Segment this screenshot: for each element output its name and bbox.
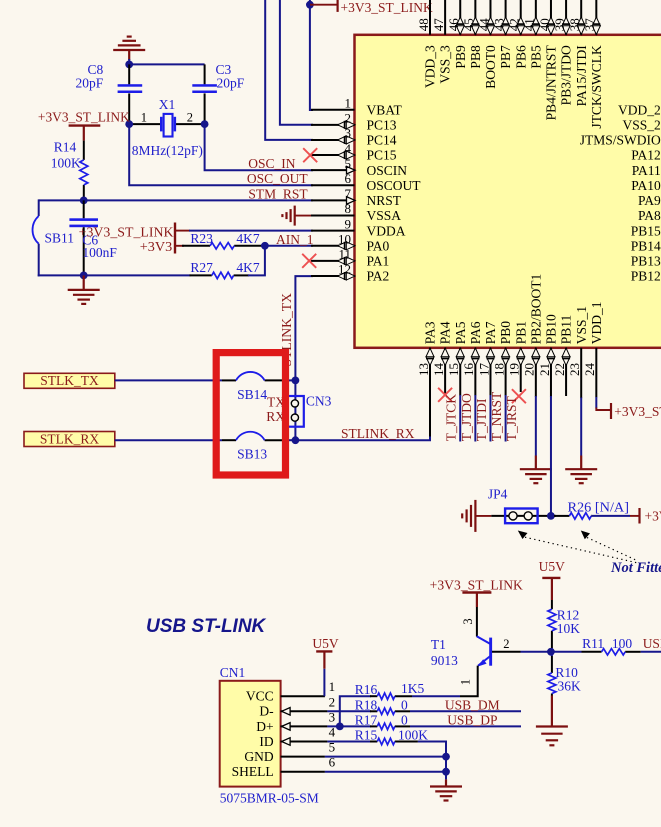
power flag +3V3_ST_LINK at R26 (630, 515, 640, 517)
svg-text:+3V3_ST_LINK: +3V3_ST_LINK (79, 224, 174, 239)
svg-text:24: 24 (582, 363, 597, 377)
svg-text:PB6: PB6 (513, 45, 528, 69)
svg-text:OSC_IN: OSC_IN (248, 156, 296, 171)
wire pin23 to ground (580, 398, 582, 456)
svg-text:39: 39 (552, 18, 567, 31)
svg-text:+3V3_ST_LINK: +3V3_ST_LINK (341, 0, 433, 15)
svg-text:X1: X1 (159, 97, 176, 112)
svg-text:PB1: PB1 (513, 321, 528, 344)
svg-text:PB0: PB0 (498, 321, 513, 345)
crystal X1 (129, 123, 161, 125)
svg-text:R16: R16 (355, 682, 378, 697)
CN1 pin 2 stub D- (281, 710, 328, 712)
svg-text:5: 5 (345, 156, 352, 171)
svg-text:3: 3 (345, 126, 352, 141)
svg-text:42: 42 (507, 18, 522, 31)
svg-text:PA7: PA7 (483, 321, 498, 344)
IC pin 47 VSS_3 (444, 0, 446, 35)
IC pin 2 PC13 (311, 124, 355, 126)
no-connect cross pin 4 (303, 148, 317, 162)
svg-text:100K: 100K (398, 728, 428, 743)
wire pin24 VDD_1 (595, 397, 597, 409)
svg-text:VDD_2: VDD_2 (618, 102, 661, 117)
IC pin 3 PC14 (311, 139, 355, 141)
node R14/STM_RST junction (80, 197, 88, 205)
wire OSC_OUT (129, 124, 313, 185)
svg-text:CN3: CN3 (306, 394, 332, 409)
no-connect cross pin 14 (438, 388, 452, 402)
svg-text:20pF: 20pF (217, 76, 245, 91)
svg-text:VCC: VCC (246, 689, 274, 704)
resistor R23 (182, 245, 210, 247)
svg-text:SB14: SB14 (237, 387, 267, 402)
svg-text:8: 8 (345, 201, 352, 216)
svg-text:T1: T1 (431, 637, 446, 652)
red highlight box (216, 353, 285, 475)
svg-text:JTCK/SWCLK: JTCK/SWCLK (589, 45, 604, 129)
IC pin 19 PB1 (520, 348, 522, 392)
IC STM32 body (355, 35, 661, 348)
svg-text:6: 6 (345, 171, 352, 186)
node STLINK_TX/CN3 (292, 377, 300, 385)
transistor T1 (477, 636, 491, 644)
svg-text:4K7: 4K7 (236, 260, 259, 275)
svg-text:3: 3 (461, 618, 475, 624)
svg-text:37: 37 (582, 18, 597, 32)
wire R16 to T1 emitter (412, 695, 460, 697)
IC pin 46 PB9 (459, 0, 461, 35)
svg-text:5075BMR-05-SM: 5075BMR-05-SM (220, 791, 319, 806)
capacitor C6 (83, 200, 85, 218)
wire STM_RST rail (39, 199, 313, 201)
ground below CN1 rail (445, 779, 447, 786)
wire OSC_IN (205, 124, 313, 170)
resistor R12 (551, 600, 553, 609)
svg-text:19: 19 (507, 363, 522, 376)
IC pin 23 VSS_1 (580, 348, 582, 398)
svg-text:SB13: SB13 (237, 446, 267, 461)
svg-text:R15: R15 (355, 728, 378, 743)
svg-text:PB14: PB14 (631, 238, 661, 253)
svg-text:STLINK_RX: STLINK_RX (341, 426, 415, 441)
svg-text:PB12: PB12 (631, 269, 661, 284)
node SHELL junction (442, 768, 450, 776)
svg-text:14: 14 (431, 363, 446, 377)
svg-text:PA9: PA9 (638, 193, 661, 208)
node PA0 junction (261, 242, 269, 250)
svg-text:2: 2 (187, 110, 193, 124)
wire stub T_JTCK (459, 395, 461, 442)
svg-text:PB9: PB9 (453, 45, 468, 69)
svg-text:41: 41 (522, 18, 537, 31)
power flag +3V3_ST_LINK top (310, 4, 338, 6)
transistor T1 base wire (492, 651, 521, 653)
resistor R18 (370, 710, 377, 712)
svg-text:R23: R23 (190, 231, 213, 246)
node JP4/R26 junction (547, 512, 555, 520)
svg-text:PB13: PB13 (631, 254, 661, 269)
svg-text:9013: 9013 (431, 653, 458, 668)
svg-text:USB ST-LINK: USB ST-LINK (146, 616, 267, 637)
IC pin 6 OSCOUT (311, 184, 355, 186)
svg-text:48: 48 (416, 18, 431, 31)
svg-text:100K: 100K (51, 156, 81, 171)
svg-text:AIN_1: AIN_1 (276, 232, 314, 247)
svg-text:STLK_RX: STLK_RX (40, 431, 100, 446)
wire SB11 left leg upper (38, 199, 40, 216)
svg-text:VDDA: VDDA (367, 223, 406, 238)
svg-text:16: 16 (461, 363, 476, 377)
IC pin 8 VSSA (311, 215, 355, 217)
svg-text:R26 [N/A]: R26 [N/A] (568, 500, 630, 515)
solder bridge SB14 (222, 379, 236, 381)
IC pin 7 NRST (311, 199, 355, 201)
svg-text:40: 40 (537, 18, 552, 31)
svg-text:PA3: PA3 (423, 321, 438, 344)
node D+ junction (336, 723, 344, 731)
svg-text:0: 0 (401, 697, 408, 712)
IC pin 48 VDD_3 (429, 0, 431, 35)
svg-text:D+: D+ (256, 719, 273, 734)
capacitor C3 (204, 64, 206, 84)
jumper JP4 (505, 509, 537, 524)
IC pin 14 PA4 (444, 348, 446, 396)
node C8/C3 top junction (125, 61, 133, 69)
svg-text:2: 2 (345, 111, 352, 126)
svg-text:PA0: PA0 (367, 238, 390, 253)
node T1 base junction (547, 648, 555, 656)
svg-text:OSCOUT: OSCOUT (367, 178, 422, 193)
svg-text:PB10: PB10 (544, 314, 559, 344)
wire SHELL to rail (325, 771, 446, 773)
svg-text:100nF: 100nF (82, 245, 117, 260)
svg-text:PB8: PB8 (468, 45, 483, 69)
wire R11 to USB (641, 651, 661, 653)
svg-text:VSSA: VSSA (367, 208, 402, 223)
transistor T1 collector (476, 607, 478, 637)
IC pin 5 OSCIN (311, 169, 355, 171)
svg-text:23: 23 (567, 363, 582, 376)
wire STLK_TX to SB14 (115, 379, 222, 381)
svg-text:SB11: SB11 (45, 231, 75, 246)
wire ID to R15 (327, 741, 371, 743)
IC pin 21 PB10 (550, 348, 552, 397)
resistor R17 (370, 725, 377, 727)
svg-text:PB11: PB11 (559, 315, 574, 345)
svg-text:2: 2 (503, 637, 509, 651)
resistor R27 (190, 274, 212, 276)
ground at JP4 (474, 500, 476, 532)
IC pin 41 PB5 (535, 0, 537, 35)
svg-text:PA8: PA8 (638, 208, 661, 223)
svg-text:R14: R14 (54, 140, 77, 155)
node GND junction (442, 753, 450, 761)
IC pin 20 PB2/BOOT1 (535, 348, 537, 397)
svg-text:PB5: PB5 (528, 45, 543, 69)
svg-text:4: 4 (345, 141, 352, 156)
svg-text:VSS_1: VSS_1 (574, 306, 589, 344)
connector CN3 (288, 396, 304, 427)
IC pin 13 PA3 (429, 348, 431, 438)
svg-text:+3V3_ST_LINK: +3V3_ST_LINK (38, 109, 130, 124)
svg-text:8MHz(12pF): 8MHz(12pF) (132, 143, 203, 158)
svg-text:U5V: U5V (539, 559, 565, 574)
svg-text:PC13: PC13 (367, 117, 397, 132)
wire stub T_JTDO (474, 395, 476, 442)
IC pin 4 PC15 (311, 154, 355, 156)
svg-text:T_JTCK: T_JTCK (444, 394, 459, 442)
svg-text:9: 9 (345, 216, 352, 231)
IC pin 22 PB11 (565, 348, 567, 396)
svg-text:1: 1 (345, 95, 352, 110)
svg-text:Not Fitted: Not Fitted (610, 560, 661, 576)
CN1 pin 6 stub SHELL (281, 771, 325, 773)
svg-text:43: 43 (491, 18, 506, 31)
svg-text:47: 47 (431, 18, 446, 32)
svg-text:U5V: U5V (312, 636, 338, 651)
svg-text:T_JTDO: T_JTDO (459, 393, 474, 441)
svg-text:VDD_1: VDD_1 (589, 302, 604, 345)
svg-text:STLK_TX: STLK_TX (40, 373, 99, 388)
no-connect cross pin 19 (512, 389, 526, 403)
CN1 pin 5 stub GND (281, 756, 325, 758)
wire SB11 left leg lower (38, 244, 40, 277)
svg-text:T_JTDI: T_JTDI (474, 398, 489, 441)
svg-text:PB15: PB15 (631, 223, 661, 238)
IC pin 45 PB8 (474, 0, 476, 35)
svg-text:+3V3_ST_LINK: +3V3_ST_LINK (645, 508, 661, 523)
wire STLK_RX to SB13 (115, 439, 222, 441)
CN1 pin 3 stub D+ (281, 725, 328, 727)
svg-text:VDD_3: VDD_3 (423, 45, 438, 88)
svg-text:PC15: PC15 (367, 148, 397, 163)
svg-text:R18: R18 (355, 697, 378, 712)
ground (inverted) above C8 (113, 49, 145, 51)
wire R27 to PA0 node (248, 246, 265, 276)
svg-text:T_JRST: T_JRST (504, 396, 519, 442)
solder bridge SB13 (222, 439, 236, 441)
svg-text:PA10: PA10 (631, 178, 661, 193)
wire ground rail (38, 274, 191, 276)
svg-text:4K7: 4K7 (236, 231, 259, 246)
ground below R10 (551, 696, 553, 727)
power flag +3V3_ST_LINK at VDD_1 (596, 408, 610, 411)
wire PC14 net (265, 0, 313, 140)
wire +3V3_ST_LINK vertical to pin 1 (310, 0, 313, 110)
svg-text:PA6: PA6 (468, 321, 483, 344)
svg-text:20: 20 (522, 363, 537, 376)
svg-text:1K5: 1K5 (401, 681, 424, 696)
svg-text:T_NRST: T_NRST (489, 391, 504, 441)
svg-text:10K: 10K (557, 621, 581, 636)
svg-text:USB_DP: USB_DP (447, 712, 497, 727)
svg-text:20pF: 20pF (76, 76, 104, 91)
IC pin 17 PA7 (489, 348, 491, 396)
svg-text:45: 45 (461, 18, 476, 31)
svg-text:PB2/BOOT1: PB2/BOOT1 (528, 274, 543, 345)
node X1 pin1 junction (125, 120, 133, 128)
wire pin21 to JP4 node (550, 396, 552, 516)
no-connect cross pin 11 (302, 254, 316, 268)
solder bridge SB11 (33, 216, 39, 244)
svg-text:1: 1 (458, 679, 472, 685)
svg-text:22: 22 (552, 363, 567, 376)
wire SB14 to node (284, 379, 295, 381)
connector CN1 body (220, 681, 281, 787)
svg-text:PA4: PA4 (438, 321, 453, 344)
wire pin20 to ground (535, 396, 537, 456)
wire STLINK_TX (295, 276, 313, 440)
svg-text:BOOT0: BOOT0 (483, 45, 498, 89)
svg-text:0: 0 (401, 712, 408, 727)
svg-text:1: 1 (141, 110, 147, 124)
IC pin 43 PB7 (505, 0, 507, 35)
resistor R11 (582, 651, 602, 653)
svg-text:OSC_OUT: OSC_OUT (247, 171, 309, 186)
svg-text:OSCIN: OSCIN (367, 163, 408, 178)
svg-text:JP4: JP4 (488, 486, 508, 501)
resistor R10 (551, 656, 553, 673)
svg-text:38: 38 (567, 18, 582, 31)
ground at pin 23 (580, 456, 582, 470)
svg-text:+3V3_ST_LINK: +3V3_ST_LINK (430, 577, 523, 592)
wire STLINK_RX (295, 437, 430, 441)
svg-text:JTMS/SWDIO: JTMS/SWDIO (580, 133, 661, 148)
wire SB13 to node (284, 439, 295, 441)
wire USB_DP (410, 725, 521, 727)
svg-text:1: 1 (329, 679, 336, 694)
port STLK_RX (24, 432, 115, 447)
svg-text:VSS_2: VSS_2 (623, 117, 661, 132)
IC pin 11 PA1 (311, 260, 355, 262)
svg-text:PB7: PB7 (498, 45, 513, 69)
svg-text:PB3/JTDO: PB3/JTDO (559, 45, 574, 105)
svg-text:18: 18 (491, 363, 506, 376)
wire R12 to node (551, 648, 553, 656)
svg-text:PB4/JNTRST: PB4/JNTRST (544, 45, 559, 121)
svg-text:46: 46 (446, 18, 461, 32)
IC pin 44 BOOT0 (489, 0, 491, 35)
svg-text:R11: R11 (582, 636, 604, 651)
svg-text:STM_RST: STM_RST (248, 186, 308, 201)
svg-text:VBAT: VBAT (367, 102, 403, 117)
IC pin 9 VDDA (311, 230, 355, 232)
IC pin 16 PA6 (474, 348, 476, 396)
not-fitted arrow to JP4 (518, 531, 528, 540)
wire top rail to C3 (129, 63, 204, 65)
svg-text:GND: GND (244, 749, 273, 764)
IC pin 40 PB4/JNTRST (550, 0, 552, 35)
wire D+ to R17 (327, 725, 371, 727)
IC pin 15 PA5 (459, 348, 461, 396)
svg-text:12: 12 (338, 262, 351, 277)
svg-text:PC14: PC14 (367, 133, 397, 148)
svg-text:10: 10 (338, 231, 351, 246)
wire VDDA (189, 230, 313, 232)
svg-text:PA2: PA2 (367, 269, 390, 284)
svg-text:15: 15 (446, 363, 461, 376)
transistor T1 emitter (460, 666, 478, 697)
IC pin 38 PA15/JTDI (580, 0, 582, 35)
wire USB_DM (410, 710, 521, 712)
svg-text:CN1: CN1 (220, 665, 246, 680)
wire PC13 net (280, 0, 313, 125)
IC pin 1 VBAT (311, 109, 355, 111)
wire stub T_JTDI (489, 395, 491, 442)
svg-text:PA5: PA5 (453, 321, 468, 344)
svg-text:USB_: USB_ (643, 636, 661, 651)
port STLK_TX (24, 373, 115, 388)
svg-text:100: 100 (612, 636, 633, 651)
ground at pin 8 VSSA (294, 206, 296, 226)
svg-text:R17: R17 (355, 712, 378, 727)
node X1 pin2 junction (201, 120, 209, 128)
svg-text:USB_DM: USB_DM (445, 697, 500, 712)
wire R15 to ground rail (418, 742, 446, 780)
capacitor C8 (128, 64, 130, 84)
IC pin 24 VDD_1 (595, 348, 597, 398)
resistor R16 (370, 695, 377, 697)
node STLINK_RX/CN3 (292, 436, 300, 444)
svg-text:PA11: PA11 (632, 163, 661, 178)
wire JP4 row (491, 515, 556, 517)
svg-text:2: 2 (329, 694, 336, 709)
not-fitted arrow to R26 (581, 531, 590, 540)
svg-text:PA12: PA12 (631, 148, 661, 163)
IC pin 18 PB0 (505, 348, 507, 396)
IC pin 42 PB6 (520, 0, 522, 35)
svg-text:D-: D- (259, 704, 274, 719)
wire R23 to PA0 (261, 245, 313, 247)
svg-text:17: 17 (476, 363, 491, 377)
wire GND to rail (325, 756, 446, 758)
svg-text:ID: ID (259, 734, 273, 749)
CN1 pin 4 stub ID (281, 741, 328, 743)
IC pin 12 PA2 (311, 275, 355, 277)
IC pin 37 JTCK/SWCLK (595, 0, 597, 35)
power flag U5V at CN1 (323, 669, 325, 697)
svg-text:PA15/JTDI: PA15/JTDI (574, 45, 589, 107)
IC pin 10 PA0 (311, 245, 355, 247)
IC pin 39 PB3/JTDO (565, 0, 567, 35)
svg-text:11: 11 (338, 247, 351, 262)
ground at pin 20 (535, 456, 537, 470)
svg-text:13: 13 (416, 363, 431, 376)
wire D+ to R16 (340, 696, 371, 726)
svg-text:7: 7 (345, 186, 352, 201)
svg-text:+3V3_ST_LINK: +3V3_ST_LINK (614, 404, 661, 419)
svg-text:R27: R27 (190, 260, 213, 275)
ground below C6 (83, 275, 85, 290)
node C6/ground junction (80, 272, 88, 280)
node +3V3_ST_LINK junction (306, 1, 314, 9)
svg-text:36K: 36K (558, 679, 582, 694)
wire D- to R18 (327, 710, 371, 712)
wire stub T_NRST (505, 395, 507, 442)
CN1 pin 1 stub (281, 695, 325, 697)
svg-text:44: 44 (476, 18, 491, 32)
svg-text:21: 21 (537, 363, 552, 376)
svg-text:+3V3: +3V3 (140, 239, 173, 254)
svg-text:SHELL: SHELL (232, 764, 274, 779)
resistor R15 (370, 741, 377, 743)
svg-text:NRST: NRST (367, 193, 402, 208)
resistor R14 (83, 141, 85, 160)
svg-text:PA1: PA1 (367, 254, 390, 269)
resistor R26 (554, 515, 569, 517)
svg-text:VSS_3: VSS_3 (438, 45, 453, 84)
